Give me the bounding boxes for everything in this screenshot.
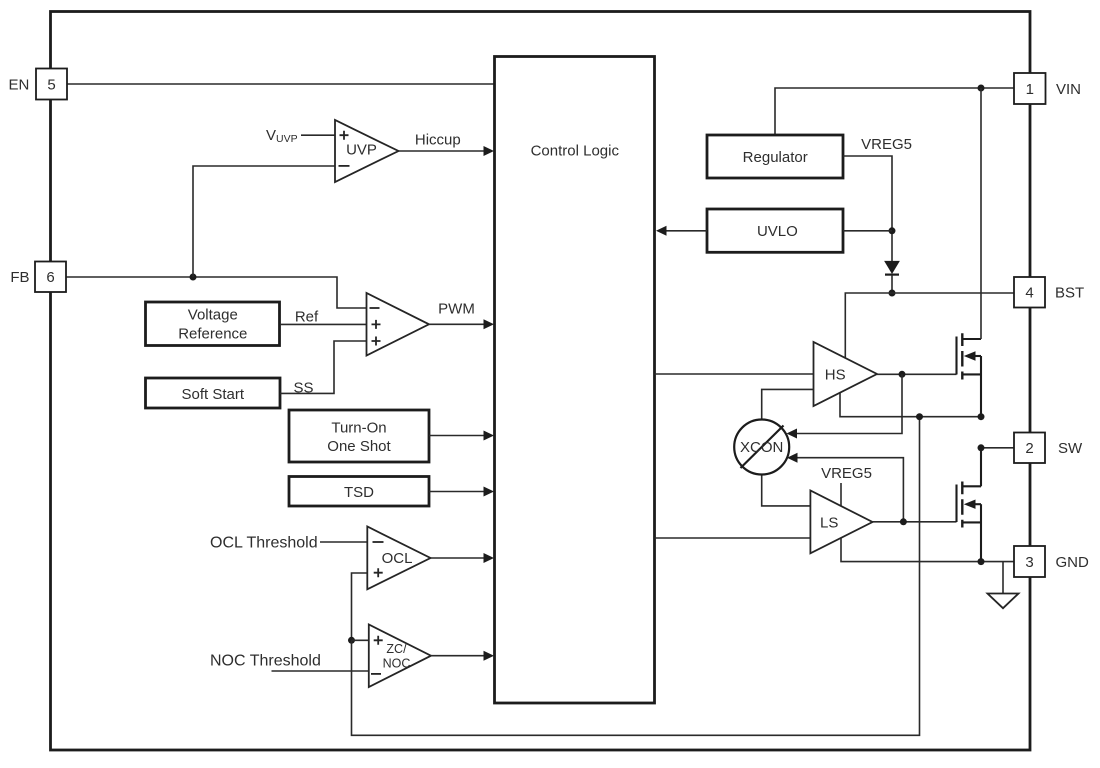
- wire XCON input from LS output: [791, 458, 903, 522]
- block Voltage Reference: [146, 302, 280, 346]
- wire OCL plus input from feedback: [352, 573, 368, 640]
- svg-text:UVLO: UVLO: [757, 223, 798, 240]
- wire Control Logic to HS driver: [655, 373, 814, 375]
- svg-text:One Shot: One Shot: [327, 438, 391, 455]
- svg-text:VIN: VIN: [1056, 81, 1081, 98]
- node VIN junction: [978, 85, 985, 92]
- svg-text:VREG5: VREG5: [821, 465, 872, 482]
- wire FB to UVP minus input: [193, 166, 335, 277]
- node HS output junction: [899, 371, 906, 378]
- svg-text:6: 6: [46, 269, 54, 286]
- svg-text:Control Logic: Control Logic: [531, 142, 620, 159]
- pin 1 VIN: [1014, 73, 1081, 104]
- arrowhead XCON lower input: [787, 453, 798, 463]
- wire PWM output to Control Logic: [429, 323, 489, 325]
- svg-text:Hiccup: Hiccup: [415, 131, 461, 148]
- wire UVLO to VREG5 node: [843, 230, 892, 232]
- arrowhead UVLO to Control Logic: [656, 226, 667, 236]
- svg-text:NOC: NOC: [383, 657, 411, 671]
- svg-text:1: 1: [1026, 81, 1034, 98]
- svg-text:TSD: TSD: [344, 484, 374, 501]
- comparator ZC/NOC: [369, 625, 431, 688]
- block Control Logic: [495, 57, 655, 704]
- wire VREG5 from Regulator down: [843, 156, 892, 261]
- comparator UVP: [335, 120, 399, 182]
- node SW rail junction right: [978, 413, 985, 420]
- svg-text:VREG5: VREG5: [861, 136, 912, 153]
- driver HS: [814, 342, 878, 406]
- arrowhead TSD output: [484, 487, 495, 497]
- wire VREG5 into LS driver: [840, 483, 842, 506]
- node UVLO junction: [889, 227, 896, 234]
- wire Regulator to VIN: [775, 88, 1014, 135]
- node BST junction: [889, 290, 896, 297]
- wire TSD output: [429, 491, 489, 493]
- svg-text:LS: LS: [820, 514, 838, 531]
- wire XCON to LS driver: [762, 475, 811, 506]
- svg-text:OCL Threshold: OCL Threshold: [210, 534, 318, 551]
- wire EN to Control Logic: [67, 83, 495, 85]
- node ZC plus junction: [348, 637, 355, 644]
- arrowhead ZC/NOC output: [484, 651, 495, 661]
- block Soft Start: [146, 378, 281, 408]
- arrowhead OCL output: [484, 553, 495, 563]
- node FB junction: [190, 274, 197, 281]
- pin 3 GND: [1014, 546, 1089, 577]
- svg-text:PWM: PWM: [438, 300, 475, 317]
- svg-text:ZC/: ZC/: [386, 642, 407, 656]
- wire FB horizontal: [66, 277, 367, 308]
- svg-text:SW: SW: [1058, 440, 1083, 457]
- diode D1 bootstrap: [885, 261, 899, 293]
- wire UVLO to Control Logic: [659, 230, 707, 232]
- svg-text:Ref: Ref: [295, 308, 319, 325]
- wire LS lower rail to GND rail: [841, 537, 1014, 562]
- pin 6 FB: [10, 262, 66, 293]
- wire SS: [280, 341, 367, 393]
- wire OCL output to Control Logic: [431, 557, 490, 559]
- wire VUVP input: [301, 134, 335, 136]
- svg-text:Reference: Reference: [178, 326, 247, 343]
- wire feedback from SW rail to comparators: [352, 417, 920, 736]
- wire XCON to HS driver: [762, 389, 814, 419]
- svg-text:Voltage: Voltage: [188, 306, 238, 323]
- svg-text:EN: EN: [8, 76, 29, 93]
- driver LS: [810, 491, 872, 554]
- wire XCON input from HS output: [791, 374, 902, 433]
- pin 2 SW: [1014, 433, 1083, 464]
- svg-text:HS: HS: [825, 366, 846, 383]
- wire ZC/NOC output to Control Logic: [431, 655, 489, 657]
- wire ZC plus input: [352, 639, 369, 641]
- svg-text:OCL: OCL: [382, 550, 413, 567]
- svg-text:BST: BST: [1055, 285, 1084, 302]
- arrowhead PWM: [484, 319, 495, 329]
- block Regulator: [707, 135, 843, 178]
- svg-text:UVP: UVP: [346, 142, 377, 159]
- svg-text:4: 4: [1025, 285, 1033, 302]
- wire Turn-On One Shot output: [429, 435, 489, 437]
- node GND rail junction: [978, 558, 985, 565]
- node SW pin junction: [978, 444, 985, 451]
- wire SW pin: [981, 447, 1014, 449]
- svg-text:XCON: XCON: [740, 439, 783, 456]
- svg-text:NOC Threshold: NOC Threshold: [210, 652, 321, 669]
- node LS output junction: [900, 518, 907, 525]
- wire OCL Threshold input: [320, 541, 367, 543]
- svg-text:SS: SS: [293, 380, 313, 397]
- transistor Q1 high-side MOSFET: [957, 88, 982, 417]
- wire Control Logic to LS driver: [655, 537, 811, 539]
- arrowhead XCON upper input: [787, 429, 798, 439]
- svg-text:Regulator: Regulator: [743, 149, 808, 166]
- svg-text:3: 3: [1025, 554, 1033, 571]
- wire BST rail: [845, 293, 1014, 358]
- svg-text:FB: FB: [10, 269, 29, 286]
- wire Ref: [280, 323, 367, 325]
- svg-text:5: 5: [47, 76, 55, 93]
- svg-text:GND: GND: [1056, 554, 1090, 571]
- comparator OCL: [367, 527, 430, 590]
- ground symbol: [988, 562, 1019, 609]
- wire NOC Threshold input: [272, 670, 369, 672]
- XCON cross-conduction block: [734, 420, 789, 475]
- node SW rail junction left: [916, 413, 923, 420]
- block UVLO: [707, 209, 843, 252]
- svg-text:Turn-On: Turn-On: [331, 420, 386, 437]
- svg-text:Soft Start: Soft Start: [182, 386, 245, 403]
- arrowhead Hiccup: [484, 146, 495, 156]
- pin 5 EN: [8, 69, 67, 100]
- wire Hiccup: UVP output to Control Logic: [399, 150, 490, 152]
- comparator PWM: [367, 293, 430, 356]
- wire HS output to gate: [877, 373, 957, 375]
- block Turn-On One Shot: [289, 410, 429, 462]
- svg-text:2: 2: [1025, 440, 1033, 457]
- arrowhead Turn-On output: [484, 431, 495, 441]
- wire LS output to gate: [873, 521, 957, 523]
- pin 4 BST: [1014, 277, 1084, 308]
- wire HS lower rail to SW node: [840, 393, 981, 417]
- block TSD: [289, 477, 429, 507]
- transistor Q2 low-side MOSFET: [957, 448, 982, 562]
